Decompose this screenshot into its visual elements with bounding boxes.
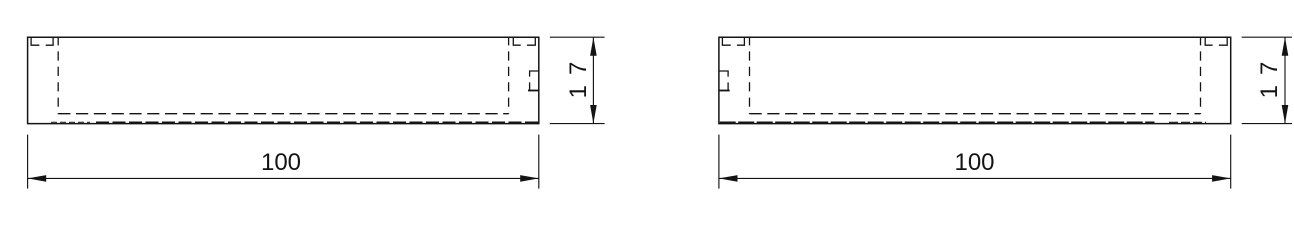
height dimension arrow up [590, 37, 597, 56]
hidden inner wall right (dashed vertical) [508, 37, 510, 114]
height dimension extension line top [1242, 36, 1292, 38]
top-left corner notch [722, 37, 744, 45]
hidden inner wall right (dashed vertical) [1200, 37, 1202, 114]
top-right corner notch [1205, 37, 1227, 45]
bottom seam (thick dashed overlay) [720, 121, 1206, 123]
bottom seam (thick dashed overlay) [51, 121, 538, 123]
svg-text:100: 100 [261, 149, 301, 176]
height dimension text 17 (rotated) [1256, 52, 1283, 99]
height dimension arrow down [590, 105, 597, 124]
width dimension extension line right [538, 135, 540, 189]
hidden inner bottom (dashed horizontal) [58, 113, 508, 115]
profile outline (outer rectangle) [28, 37, 539, 123]
profile outline (outer rectangle) [719, 37, 1231, 123]
width dimension text 100 [954, 149, 994, 176]
top-right corner notch [513, 37, 535, 45]
side latch notch [719, 71, 730, 91]
svg-text:17: 17 [565, 52, 592, 99]
width dimension line [719, 177, 1231, 179]
width dimension arrow left [719, 175, 738, 182]
width dimension text 100 [261, 149, 301, 176]
width dimension arrow right [520, 175, 539, 182]
width dimension extension line right [1230, 135, 1232, 189]
svg-text:17: 17 [1256, 52, 1283, 99]
width dimension extension line left [27, 135, 29, 189]
height dimension line [592, 37, 594, 123]
height dimension text 17 (rotated) [565, 52, 592, 99]
height dimension arrow down [1282, 105, 1289, 124]
height dimension arrow up [1282, 37, 1289, 56]
top-left corner notch [31, 37, 53, 45]
hidden inner wall left (dashed vertical) [749, 37, 751, 114]
hidden inner bottom (dashed horizontal) [750, 113, 1201, 115]
width dimension line [28, 177, 539, 179]
height dimension extension line top [550, 36, 605, 38]
width dimension arrow left [28, 175, 47, 182]
svg-text:100: 100 [954, 149, 994, 176]
side latch notch [528, 71, 539, 91]
width dimension arrow right [1212, 175, 1231, 182]
height dimension extension line bottom [550, 123, 605, 125]
hidden inner wall left (dashed vertical) [57, 37, 59, 114]
width dimension extension line left [718, 135, 720, 189]
height dimension extension line bottom [1242, 123, 1292, 125]
height dimension line [1284, 37, 1286, 123]
